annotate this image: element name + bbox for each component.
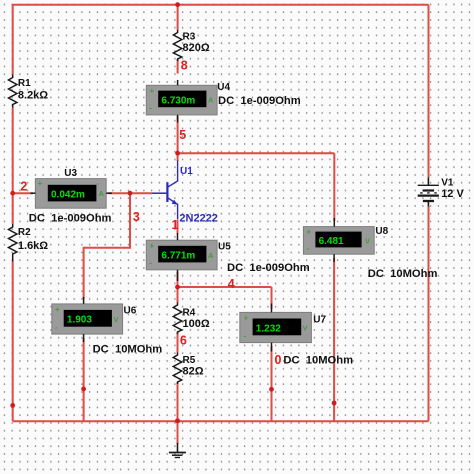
node junction top rail at R3: [175, 2, 180, 7]
node junction left rail node 2: [10, 191, 15, 196]
svg-text:DC 10MOhm: DC 10MOhm: [283, 354, 353, 366]
svg-text:-: -: [307, 244, 310, 253]
svg-text:6: 6: [180, 334, 187, 348]
ammeter U3: [35, 179, 106, 209]
base bar: [166, 182, 168, 202]
wire node 2 left rail to U3: [13, 192, 33, 194]
wire node 4 branch to U7 horizontal: [178, 286, 272, 288]
svg-text:V: V: [365, 237, 370, 246]
svg-text:DC 1e-009Ohm: DC 1e-009Ohm: [29, 213, 112, 225]
wire left rail lower (R2 to bottom rail): [12, 262, 14, 422]
svg-text:100Ω: 100Ω: [183, 318, 210, 330]
svg-text:V: V: [114, 315, 119, 324]
black lead U5 bottom: [177, 270, 179, 281]
resistor R1: [9, 75, 17, 108]
resistor R5: [173, 353, 181, 385]
svg-text:V1: V1: [441, 177, 454, 188]
voltmeter U6: [52, 304, 123, 334]
svg-text:+: +: [244, 314, 249, 323]
svg-text:+: +: [150, 242, 155, 251]
wire right rail upper (to battery): [428, 5, 430, 178]
transistor Q1 (U1 2N2222): [152, 161, 178, 220]
wire left rail middle (R1 to R2): [12, 108, 14, 225]
black lead U6 bottom: [83, 334, 85, 342]
svg-text:U8: U8: [375, 226, 388, 237]
ammeter U4: [146, 85, 217, 115]
wire node 3 branch down to U6: [84, 193, 130, 299]
svg-text:U3: U3: [64, 168, 77, 179]
svg-text:3: 3: [133, 210, 140, 224]
wire node 1 emitter to U5: [177, 220, 179, 234]
svg-text:12 V: 12 V: [441, 188, 464, 200]
ammeter U5: [146, 240, 217, 270]
black lead U3 right: [106, 192, 112, 194]
svg-text:6.771m: 6.771m: [161, 251, 195, 262]
svg-text:2N2222: 2N2222: [179, 213, 218, 225]
node junction base branch node 3: [128, 191, 133, 196]
battery plate long lower: [418, 194, 439, 196]
svg-text:U1: U1: [180, 166, 193, 177]
wire node 4 U5 to R4: [177, 272, 179, 303]
battery plate short bottom: [423, 200, 434, 202]
svg-text:DC 10MOhm: DC 10MOhm: [93, 344, 163, 356]
voltmeter U8: [303, 227, 374, 255]
black lead U6 top: [83, 297, 85, 304]
svg-text:R4: R4: [183, 307, 196, 318]
svg-text:5: 5: [179, 128, 186, 142]
svg-text:4: 4: [228, 277, 235, 291]
node junction node 4: [175, 285, 180, 290]
svg-text:82Ω: 82Ω: [183, 366, 204, 378]
black lead U7 bottom: [271, 343, 273, 352]
svg-text:0.042m: 0.042m: [51, 190, 85, 201]
svg-text:+: +: [150, 87, 155, 96]
svg-text:-: -: [244, 332, 247, 341]
wire node 3 U3 to base: [108, 192, 152, 194]
voltmeter U7: [240, 312, 312, 342]
svg-text:+: +: [307, 228, 312, 237]
wire collector branch to U8 vertical: [333, 153, 335, 221]
node junction left rail lower: [10, 403, 15, 408]
svg-text:DC 1e-009Ohm: DC 1e-009Ohm: [218, 95, 301, 107]
node junction U6 wire: [81, 387, 86, 392]
wire top rail to R3: [177, 5, 179, 30]
svg-text:U5: U5: [218, 242, 231, 253]
emitter arrowhead: [172, 200, 178, 205]
battery plate short upper: [423, 189, 434, 191]
wire U8 bottom to bottom rail: [333, 258, 335, 421]
resistor R2: [9, 224, 17, 262]
wire R5 to ground: [177, 383, 179, 445]
svg-text:R1: R1: [18, 78, 31, 89]
svg-text:-: -: [55, 323, 58, 332]
wire collector branch to U8 horizontal: [178, 152, 335, 154]
ground: [169, 443, 186, 458]
svg-text:U7: U7: [313, 315, 326, 326]
svg-text:1.232: 1.232: [256, 323, 281, 334]
resistor R3: [173, 30, 181, 61]
wire left rail upper (to R1): [12, 4, 14, 75]
svg-text:R3: R3: [183, 32, 196, 43]
node junction U7 wire: [269, 387, 274, 392]
battery top lead: [427, 178, 429, 186]
wire U6 bottom to bottom rail: [83, 338, 85, 421]
svg-text:-: -: [150, 104, 153, 113]
svg-text:1: 1: [172, 218, 179, 232]
svg-text:0: 0: [275, 353, 282, 367]
wire bottom rail: [13, 420, 429, 422]
node junction U8 wire: [332, 401, 337, 406]
black lead U5 top: [177, 233, 179, 240]
svg-text:R5: R5: [183, 355, 196, 366]
wire node 5 U4 to collector: [177, 116, 179, 161]
svg-text:+: +: [55, 305, 60, 314]
svg-text:-: -: [97, 179, 100, 188]
black lead U4 top: [177, 80, 179, 85]
svg-text:820Ω: 820Ω: [183, 42, 210, 54]
wire U7 bottom to bottom rail: [271, 346, 273, 421]
svg-text:U6: U6: [124, 306, 137, 317]
wire top rail: [13, 4, 429, 6]
svg-text:V: V: [303, 324, 308, 333]
black lead U8 bottom: [333, 254, 335, 262]
black lead U3 left: [31, 192, 36, 194]
wire right rail lower (battery to bottom rail): [428, 206, 430, 421]
svg-text:8: 8: [181, 59, 188, 73]
node junction collector branch node 5: [175, 151, 180, 156]
svg-text:DC 1e-009Ohm: DC 1e-009Ohm: [227, 262, 310, 274]
battery V1: [418, 178, 439, 207]
svg-text:U4: U4: [217, 82, 230, 93]
svg-text:A: A: [208, 96, 214, 105]
svg-text:A: A: [99, 189, 105, 198]
svg-text:R2: R2: [18, 227, 31, 238]
resistor R4: [173, 303, 181, 335]
black lead U8 top: [333, 218, 335, 227]
svg-text:2: 2: [20, 180, 27, 194]
svg-text:1.6kΩ: 1.6kΩ: [18, 240, 48, 252]
battery plate long top: [418, 184, 439, 186]
base lead: [152, 192, 166, 194]
svg-text:-: -: [150, 259, 153, 268]
collector lead: [167, 161, 177, 188]
svg-text:1.903: 1.903: [67, 315, 92, 326]
svg-text:6.730m: 6.730m: [161, 95, 195, 106]
battery bottom lead: [427, 201, 429, 207]
black lead U7 top: [271, 304, 273, 313]
svg-text:A: A: [208, 251, 214, 260]
svg-text:6.481: 6.481: [319, 236, 344, 247]
wire node 6 R4 to R5: [177, 333, 179, 353]
node junction ground cross: [175, 418, 180, 423]
svg-text:DC 10MOhm: DC 10MOhm: [368, 268, 438, 280]
battery dashes: [420, 192, 437, 194]
svg-text:8.2kΩ: 8.2kΩ: [18, 90, 48, 102]
wire node 8 R3 to U4: [177, 59, 179, 74]
svg-text:+: +: [38, 179, 43, 188]
black lead U4 bottom: [177, 115, 179, 123]
emitter lead: [167, 198, 177, 220]
wire node 4 branch to U7 vertical: [271, 287, 273, 309]
